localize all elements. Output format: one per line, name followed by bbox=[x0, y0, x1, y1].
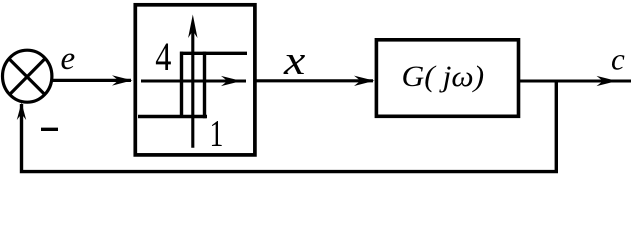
relay left switching line bbox=[180, 52, 183, 117]
svg-text:c: c bbox=[611, 41, 625, 76]
relay bottom output line bbox=[138, 115, 207, 118]
wire e: summing junction to nonlinearity block bbox=[51, 79, 131, 82]
relay top output line bbox=[180, 52, 247, 55]
arrowhead into G block bbox=[354, 76, 375, 86]
vertical axis of relay characteristic bbox=[191, 28, 194, 148]
svg-text:G( jω): G( jω) bbox=[402, 60, 485, 93]
feedback arrowhead into summing junction bbox=[17, 103, 26, 121]
wire c: G block output to right edge bbox=[519, 79, 631, 82]
horizontal axis arrowhead bbox=[221, 76, 242, 86]
vertical axis arrowhead bbox=[188, 15, 197, 39]
svg-text:4: 4 bbox=[155, 35, 171, 79]
minus sign at feedback input bbox=[41, 128, 58, 131]
svg-text:1: 1 bbox=[210, 113, 224, 155]
relay right switching line bbox=[203, 52, 206, 119]
svg-text:e: e bbox=[61, 41, 76, 77]
summing junction (circle with X) bbox=[3, 50, 52, 102]
arrowhead into nonlinearity block bbox=[112, 75, 133, 85]
output arrowhead bbox=[597, 76, 618, 86]
wire x: nonlinearity block to G block bbox=[256, 79, 373, 82]
transfer function block G(jω) bbox=[376, 40, 518, 117]
horizontal axis of relay characteristic bbox=[141, 79, 246, 82]
nonlinearity block N (relay with hysteresis) bbox=[135, 5, 255, 155]
feedback wire: output node down, across bottom, up to summing junction bbox=[22, 81, 557, 172]
svg-text:x: x bbox=[283, 37, 306, 83]
